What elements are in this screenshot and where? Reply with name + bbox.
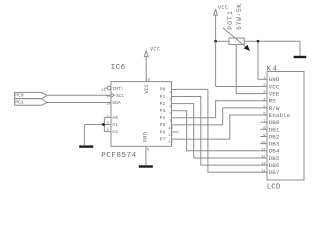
wire K4 GND branch [258,41,260,79]
pin 13 INT of IC6 [101,86,124,93]
resistor POT1 67W-5K [223,3,250,51]
wire P4 to RS [179,101,261,118]
svg-text:DB2: DB2 [269,133,280,140]
svg-text:SDA: SDA [112,100,120,106]
svg-text:RS: RS [269,98,277,105]
svg-text:16: 16 [145,79,150,83]
pin 3 A2 of IC6 [104,129,118,135]
node junction gnd branch [257,40,260,43]
svg-text:7: 7 [263,120,265,124]
svg-text:Enable: Enable [269,112,291,119]
svg-text:P6: P6 [160,129,166,135]
ground top right [294,56,307,58]
pin 15 SDA of IC6 [104,100,120,106]
wire P7 to Enable [179,115,261,139]
svg-text:14: 14 [261,170,266,174]
connector K4 LCD body [267,65,305,191]
svg-text:PC0: PC0 [15,93,24,99]
pins 1-14 of K4 [260,76,290,176]
svg-text:DB3: DB3 [269,141,280,148]
svg-text:13: 13 [101,89,106,93]
node PC0 flag [15,92,48,98]
ground at A pins [79,145,93,147]
svg-text:P2: P2 [160,101,166,107]
wire P2 to DB5 [179,104,261,158]
pin 2 A1 of IC6 [104,122,118,128]
wire P1 to DB6 [179,97,261,166]
svg-text:GND: GND [143,131,149,142]
wire PC1 to SDA [47,102,104,104]
svg-text:12: 12 [261,156,266,160]
svg-text:11: 11 [168,134,173,138]
node PC1 flag [15,99,48,106]
node junction at A1 [102,123,105,126]
wire A0-A1-A2 tie [84,117,104,145]
svg-text:11: 11 [261,148,266,152]
svg-text:6: 6 [169,106,172,110]
svg-text:POT1: POT1 [227,10,234,30]
svg-text:P1: P1 [160,94,166,100]
svg-text:4: 4 [169,91,172,95]
svg-text:9: 9 [169,120,172,124]
svg-text:DB1: DB1 [269,126,280,133]
svg-text:13: 13 [261,163,266,167]
ground at IC6 GND [139,165,153,167]
svg-text:IC6: IC6 [111,64,126,72]
svg-text:INT\: INT\ [112,86,123,92]
pins P0-P7 of IC6 [160,87,179,145]
power VCC symbol at POT1 [214,5,229,15]
svg-text:15: 15 [106,103,111,107]
pin 14 SCL of IC6 [104,93,124,99]
svg-text:LCD: LCD [267,183,281,191]
wire pot wiper to K4 VEE [236,45,260,94]
wire P5 to R/W [179,108,261,125]
wire pot left terminal [216,40,229,42]
svg-text:5: 5 [169,98,172,102]
svg-text:67W-5K: 67W-5K [236,3,243,30]
svg-text:P3: P3 [160,108,166,114]
wire P3 to DB4 [179,111,261,151]
svg-text:K4: K4 [267,65,279,73]
svg-text:P7: P7 [160,136,166,142]
svg-text:VCC: VCC [150,47,160,53]
svg-text:VEE: VEE [269,91,280,98]
svg-text:7: 7 [169,113,171,117]
node junction VCC-pot [214,40,217,43]
wire VCC stem to pot [215,15,217,41]
svg-text:12: 12 [168,141,173,145]
svg-text:14: 14 [106,95,111,99]
svg-text:SCL: SCL [116,93,124,99]
svg-text:DB6: DB6 [269,162,280,169]
svg-text:P0: P0 [160,87,166,93]
wire P0 to DB7 [179,89,261,172]
svg-text:10: 10 [168,127,173,131]
pin 8 GND of IC6 [143,131,150,165]
svg-text:VCC: VCC [269,83,280,90]
svg-text:P4: P4 [160,115,166,121]
svg-text:DB0: DB0 [269,119,280,126]
svg-text:R/W: R/W [269,105,280,112]
IC U1: IC6 PCF8574 body [101,64,171,160]
svg-text:P5: P5 [160,122,166,128]
power VCC symbol at IC6 [144,47,160,57]
svg-text:DB5: DB5 [269,155,280,162]
svg-text:10: 10 [261,141,266,145]
wire pot right terminal to ground [244,41,300,56]
svg-text:A2: A2 [112,129,118,135]
svg-text:A0: A0 [112,115,118,121]
svg-text:VCC: VCC [144,84,150,94]
wire PC0 to SCL [47,94,104,96]
wire VCC to K4 [216,41,261,86]
svg-text:GND: GND [269,76,280,83]
svg-text:PCF8574: PCF8574 [101,152,136,160]
pin 1 A0 of IC6 [104,115,118,121]
svg-text:A1: A1 [112,122,118,128]
svg-text:DB7: DB7 [269,169,280,176]
pin 16 VCC of IC6 [144,57,150,94]
svg-text:PC1: PC1 [15,99,24,105]
svg-text:8: 8 [147,149,150,153]
svg-text:DB4: DB4 [269,148,280,155]
